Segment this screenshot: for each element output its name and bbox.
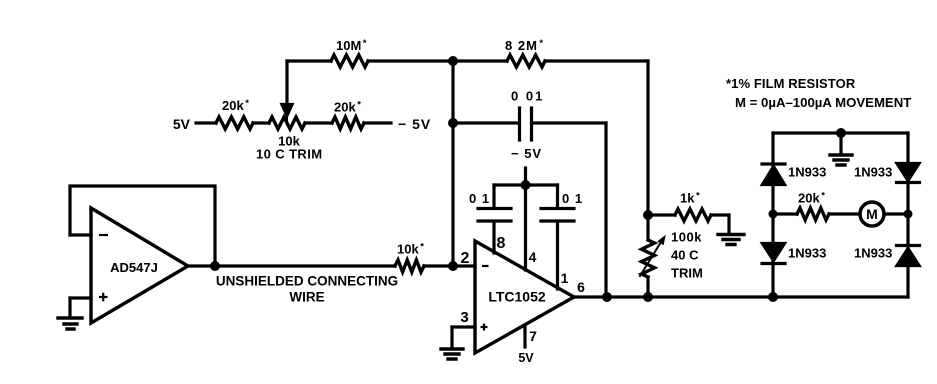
svg-text:1N933: 1N933 [788, 246, 826, 261]
svg-text:AD547J: AD547J [110, 260, 158, 275]
wire: 1k branch [648, 213, 675, 216]
svg-text:8: 8 [497, 235, 506, 252]
op-amp U1 AD547J triangle [91, 208, 188, 323]
wire [424, 264, 453, 267]
svg-text:20k*: 20k* [334, 100, 361, 115]
node: bridge top ground tap [836, 128, 846, 138]
wire [711, 213, 729, 216]
wire [829, 212, 860, 215]
resistor R 10k* zigzag [395, 260, 424, 272]
wire: -5V stub to supply node [524, 168, 527, 185]
svg-text:1N933: 1N933 [854, 246, 892, 261]
wire: pin 8 lead [492, 222, 495, 253]
node: 100k to output rail [643, 292, 653, 302]
capacitor C 0.1 left plates [478, 207, 511, 210]
wire: minus input lead [70, 233, 91, 236]
resistor R 8.2M* zigzag [507, 55, 545, 67]
svg-text:LTC1052: LTC1052 [488, 289, 546, 305]
ground: AD547J plus input [58, 318, 82, 329]
svg-text:1k*: 1k* [680, 191, 700, 206]
diode D3 1N933 upper-right [897, 164, 919, 181]
wire: supply arm [494, 183, 558, 186]
wire: 100k lower lead [646, 277, 649, 297]
svg-text:3: 3 [460, 309, 468, 326]
node: bridge bottom-left [768, 292, 778, 302]
svg-text:0 1: 0 1 [469, 191, 490, 206]
wire: top feedback rail [287, 59, 331, 62]
svg-text:4: 4 [529, 249, 537, 265]
svg-text:10 C TRIM: 10 C TRIM [256, 147, 322, 162]
wire: 5V bias row [196, 121, 216, 124]
meter M circle [860, 202, 884, 226]
svg-text:1N933: 1N933 [788, 165, 826, 180]
wire: meter to right rail [885, 212, 908, 215]
wire: pot wiper arrowhead [282, 105, 292, 116]
wire: plus input lead [70, 296, 91, 299]
wire: bridge top ground stub [839, 133, 842, 154]
wire [364, 121, 391, 124]
resistor R 20k* left zigzag [216, 117, 253, 129]
wire: bridge middle rail left [773, 212, 797, 215]
svg-text:M = 0µA–100µA MOVEMENT: M = 0µA–100µA MOVEMENT [735, 95, 911, 110]
svg-text:1N933: 1N933 [854, 165, 892, 180]
svg-text:8 2M*: 8 2M* [505, 38, 544, 53]
resistor R 100k trim vertical zigzag [642, 240, 655, 277]
svg-text:10k*: 10k* [397, 242, 424, 257]
wire: 100k trim arrow [640, 242, 661, 276]
wire [253, 121, 269, 124]
wire: 1k ground stub [727, 215, 730, 233]
wire: bridge right rail [906, 133, 909, 297]
label: AD547J minus sign [99, 234, 108, 236]
wire: pin 4 lead [524, 185, 527, 270]
svg-text:0 01: 0 01 [511, 89, 544, 104]
label: AD547J plus sign [99, 293, 108, 301]
wire: bridge left rail [771, 133, 774, 297]
svg-text:10M*: 10M* [336, 38, 367, 53]
node: -5V supply node [521, 180, 531, 190]
wire: 0.01 return drop to output [604, 123, 607, 297]
label: LTC1052 minus sign [482, 265, 489, 267]
svg-text:40 C: 40 C [671, 248, 699, 263]
wire: pin 3 ground stub [450, 327, 453, 348]
node: bridge middle-left [769, 210, 778, 219]
svg-text:WIRE: WIRE [289, 290, 324, 305]
wire: feedback drop x=648 upper [646, 61, 649, 240]
diode D1 1N933 upper-left [762, 162, 785, 165]
ground: 1k return [718, 235, 744, 245]
label: LTC1052 plus sign [481, 324, 488, 331]
resistor R 20k* right zigzag [332, 117, 364, 129]
wire: output rail [574, 295, 908, 298]
wire [305, 121, 332, 124]
svg-text:5V: 5V [173, 116, 191, 132]
wire: pin 7 lead [523, 325, 526, 347]
wire: feedback box around AD547J [70, 186, 215, 266]
svg-text:M: M [866, 206, 878, 222]
capacitor C 0.01 plates [518, 108, 521, 140]
wire: bridge top rail [773, 131, 908, 134]
svg-text:UNSHIELDED CONNECTING: UNSHIELDED CONNECTING [216, 274, 398, 289]
wire: pin 3 input [452, 325, 475, 328]
diode D2 1N933 lower-left [763, 244, 785, 261]
svg-text:0 1: 0 1 [562, 191, 583, 206]
wire: vertical inverting-input bus x=453 [451, 61, 454, 266]
resistor R 1k* zigzag [675, 209, 711, 221]
resistor R 10M* zigzag [331, 55, 368, 67]
wire: right cap drop [556, 185, 559, 207]
ground: pin 3 [441, 349, 463, 359]
node: output / 0.01 return [602, 292, 612, 302]
node: 1k branch [643, 210, 653, 220]
node: AD547J output [210, 261, 220, 271]
svg-text:7: 7 [529, 328, 537, 344]
svg-text:100k: 100k [671, 230, 702, 245]
wire: unshielded connecting wire [188, 264, 395, 267]
svg-text:*1% FILM RESISTOR: *1% FILM RESISTOR [726, 76, 856, 91]
svg-text:5V: 5V [518, 351, 534, 365]
resistor R 20k* bridge zigzag [797, 208, 829, 220]
svg-text:2: 2 [461, 250, 470, 267]
potentiometer R 10k zigzag [269, 117, 305, 129]
ground: bridge top [830, 155, 852, 165]
node: bridge middle-right [904, 210, 913, 219]
wire: 0.01 cap right lead [533, 121, 606, 124]
op-amp U2 LTC1052 triangle [475, 241, 574, 353]
node: junction pin2 [448, 261, 458, 271]
capacitor C 0.1 right plates [541, 207, 574, 210]
node: junction 0.01 cap tap [448, 118, 458, 128]
diode D4 1N933 lower-right [897, 244, 920, 247]
svg-text:− 5V: − 5V [398, 116, 431, 132]
wire: plus ground stub [68, 298, 71, 317]
wire: left cap drop [492, 185, 495, 207]
svg-text:− 5V: − 5V [511, 146, 542, 161]
svg-text:20k*: 20k* [798, 191, 825, 206]
wire: left drop from top rail to pot wiper [285, 61, 288, 105]
svg-text:1: 1 [561, 270, 569, 286]
wire: pin 2 input [453, 264, 475, 267]
svg-text:TRIM: TRIM [671, 266, 703, 281]
wire: pin 1 lead [556, 222, 559, 289]
node: junction top rail / x453 [448, 56, 458, 66]
svg-text:20k*: 20k* [222, 98, 249, 113]
svg-text:6: 6 [577, 279, 585, 295]
wire: 0.01 cap left lead [453, 121, 518, 124]
